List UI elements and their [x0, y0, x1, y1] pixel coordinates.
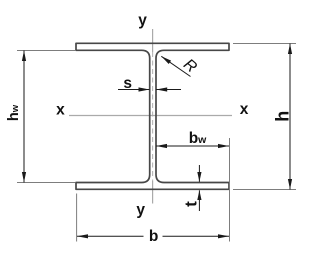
- svg-text:b: b: [149, 228, 158, 245]
- svg-text:t: t: [182, 201, 201, 207]
- svg-text:h: h: [273, 111, 293, 122]
- svg-text:x: x: [240, 101, 249, 118]
- svg-text:s: s: [123, 75, 132, 92]
- svg-text:y: y: [136, 202, 145, 219]
- svg-text:x: x: [56, 102, 65, 119]
- svg-text:y: y: [138, 12, 147, 29]
